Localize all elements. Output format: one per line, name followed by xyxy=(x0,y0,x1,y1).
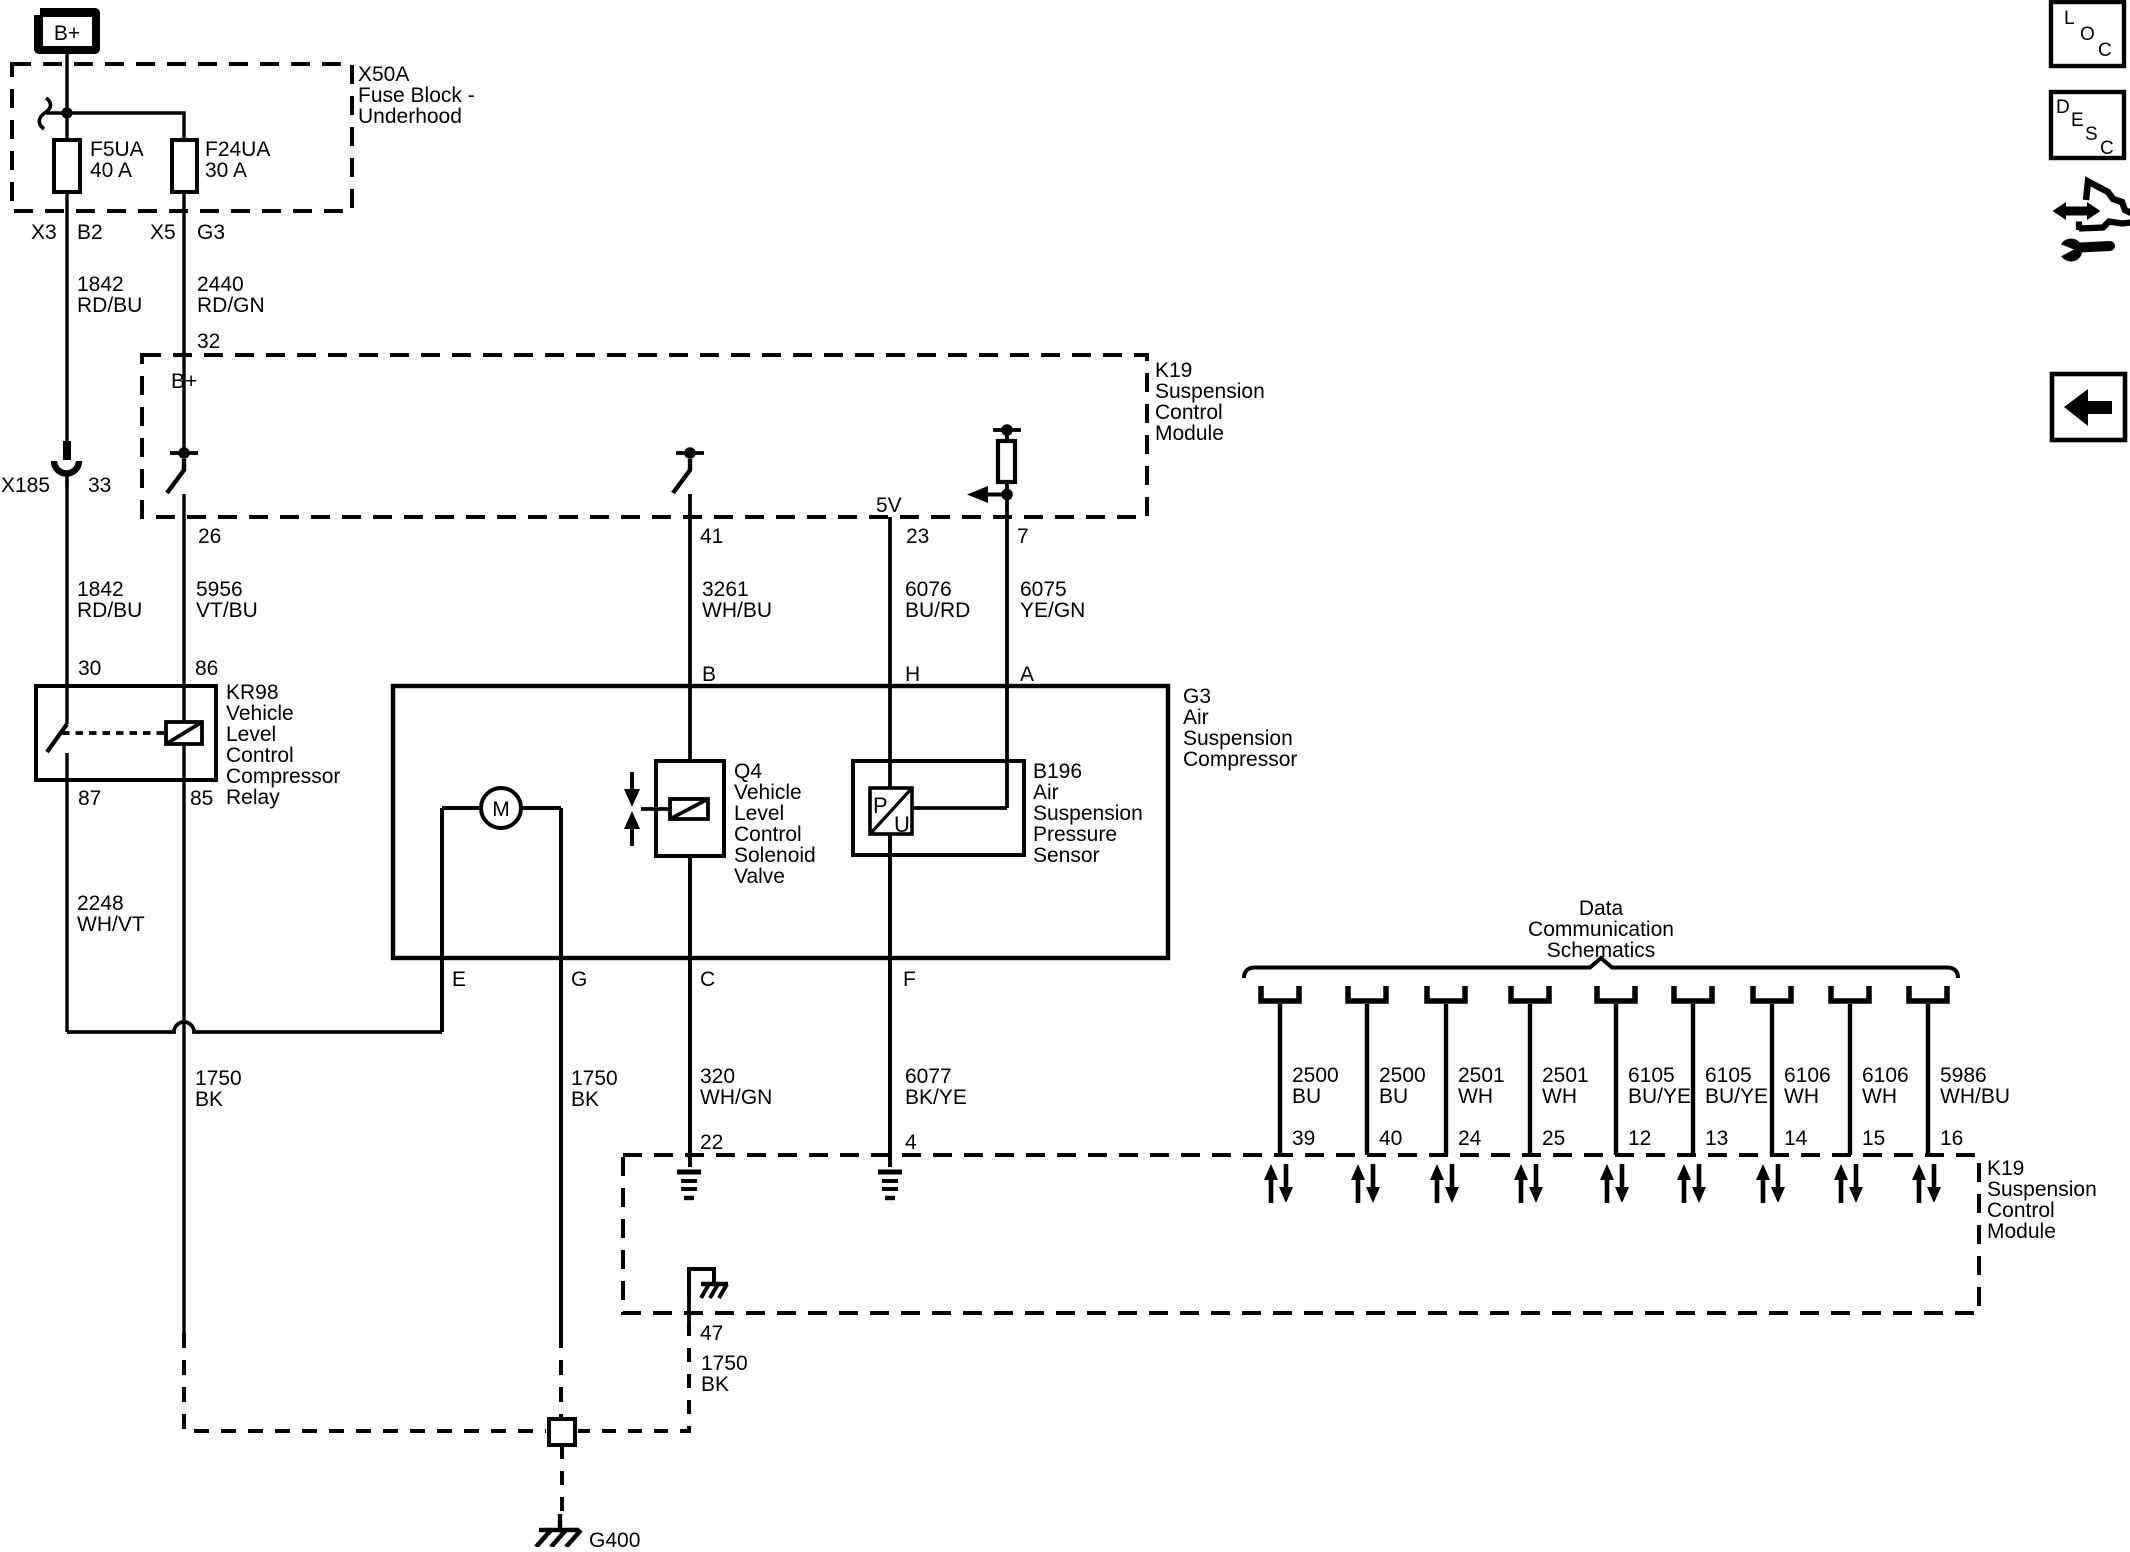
relay switch blade xyxy=(47,724,67,752)
svg-text:25: 25 xyxy=(1542,1127,1565,1150)
wire label 5956 VT/BU xyxy=(196,578,258,622)
svg-text:Suspension: Suspension xyxy=(1033,802,1143,825)
wire label 1750 BK (3) xyxy=(701,1352,748,1396)
svg-text:C: C xyxy=(2098,40,2112,61)
svg-text:4: 4 xyxy=(905,1131,917,1154)
svg-text:Air: Air xyxy=(1033,781,1059,804)
svg-text:F: F xyxy=(903,968,916,991)
data link connector (pin 24) xyxy=(1427,986,1465,1001)
data communication schematics label xyxy=(1528,897,1674,962)
svg-text:Suspension: Suspension xyxy=(1155,380,1265,403)
bidirectional data arrows (pin 25) xyxy=(1514,1164,1543,1203)
sensor output link to pin A wire xyxy=(912,806,1007,810)
wire motor to pin G ground lead xyxy=(559,808,563,1333)
wire sensor to pin F ground (pin 4) xyxy=(888,834,892,1167)
wire label 2248 WH/VT xyxy=(77,892,145,936)
svg-text:Valve: Valve xyxy=(734,865,785,888)
wire label 6105 BU/YE xyxy=(1705,1064,1768,1108)
case ground symbol at pin 47 xyxy=(689,1269,728,1298)
wire data link pin 16 xyxy=(1926,1004,1930,1155)
svg-text:2501: 2501 xyxy=(1542,1064,1589,1087)
K19 suspension control module label xyxy=(1155,359,1265,445)
svg-text:Control: Control xyxy=(734,823,802,846)
svg-text:G3: G3 xyxy=(1183,685,1211,708)
svg-text:86: 86 xyxy=(195,657,218,680)
svg-text:O: O xyxy=(2080,24,2095,45)
relay coil xyxy=(166,722,202,744)
svg-text:F5UA: F5UA xyxy=(90,138,144,161)
pull-up resistor inside K19 xyxy=(993,424,1021,482)
svg-text:40: 40 xyxy=(1379,1127,1402,1150)
svg-text:Q4: Q4 xyxy=(734,760,762,783)
svg-text:L: L xyxy=(2064,8,2075,29)
svg-text:33: 33 xyxy=(88,474,111,497)
fuse F24UA xyxy=(172,140,197,192)
svg-text:2248: 2248 xyxy=(77,892,124,915)
svg-text:40 A: 40 A xyxy=(90,159,132,182)
wire label 2500 BU xyxy=(1292,1064,1339,1108)
svg-text:Suspension: Suspension xyxy=(1987,1178,2097,1201)
data link connector (pin 14) xyxy=(1753,986,1791,1001)
svg-text:1842: 1842 xyxy=(77,578,124,601)
svg-text:Pressure: Pressure xyxy=(1033,823,1117,846)
svg-text:WH/BU: WH/BU xyxy=(1940,1085,2010,1108)
bidirectional data arrows (pin 39) xyxy=(1264,1164,1293,1203)
svg-text:C: C xyxy=(2100,138,2114,159)
svg-text:BK: BK xyxy=(701,1373,729,1396)
svg-text:G3: G3 xyxy=(197,221,225,244)
svg-text:14: 14 xyxy=(1784,1127,1808,1150)
svg-text:Module: Module xyxy=(1987,1220,2056,1243)
svg-text:Compressor: Compressor xyxy=(1183,748,1297,771)
bidirectional data arrows (pin 13) xyxy=(1677,1164,1706,1203)
svg-text:85: 85 xyxy=(190,787,213,810)
svg-text:Suspension: Suspension xyxy=(1183,727,1293,750)
svg-text:BU/YE: BU/YE xyxy=(1705,1085,1768,1108)
svg-text:B+: B+ xyxy=(54,22,80,45)
svg-text:16: 16 xyxy=(1940,1127,1963,1150)
svg-text:VT/BU: VT/BU xyxy=(196,599,258,622)
svg-text:Relay: Relay xyxy=(226,786,280,809)
svg-text:5956: 5956 xyxy=(196,578,243,601)
wire data link pin 15 xyxy=(1848,1004,1852,1155)
fuse F5UA 40 A value label xyxy=(90,138,144,182)
wire X185 to relay pin 30 xyxy=(65,480,68,686)
inline connector X185 xyxy=(54,441,79,487)
svg-text:Control: Control xyxy=(226,744,294,767)
relay coil wire xyxy=(182,686,185,780)
pressure sensor B196 box xyxy=(853,761,1024,855)
svg-text:B: B xyxy=(702,663,716,686)
wire splice to fuse F5UA xyxy=(65,113,68,140)
svg-text:YE/GN: YE/GN xyxy=(1020,599,1085,622)
svg-text:D: D xyxy=(2056,97,2070,118)
svg-text:U: U xyxy=(894,812,910,837)
X50A fuse block label xyxy=(358,63,475,128)
wire fuse F5UA to connector X185 xyxy=(65,192,68,441)
relay KR98 label xyxy=(226,681,340,809)
relay output wire to pin 87 xyxy=(65,753,68,780)
svg-text:B196: B196 xyxy=(1033,760,1082,783)
wire label 1750 BK (2) xyxy=(571,1067,618,1111)
relay actuation dashed link xyxy=(62,731,166,735)
svg-text:1750: 1750 xyxy=(701,1352,748,1375)
driver switch contact for pin 41 xyxy=(673,447,704,493)
svg-text:23: 23 xyxy=(906,525,929,548)
svg-text:6075: 6075 xyxy=(1020,578,1067,601)
data communication brace xyxy=(1244,958,1958,978)
svg-text:WH: WH xyxy=(1784,1085,1819,1108)
vehicle diagnostic icon with arrow and wrench xyxy=(2050,182,2130,262)
svg-text:Control: Control xyxy=(1987,1199,2055,1222)
bidirectional data arrows (pin 24) xyxy=(1430,1164,1459,1203)
wire label 6106 WH xyxy=(1784,1064,1831,1108)
wire B+ terminal down into fuse block xyxy=(65,54,68,113)
svg-text:B2: B2 xyxy=(77,221,103,244)
svg-text:320: 320 xyxy=(700,1065,735,1088)
svg-text:26: 26 xyxy=(198,525,221,548)
svg-text:X185: X185 xyxy=(1,474,50,497)
svg-text:13: 13 xyxy=(1705,1127,1728,1150)
svg-text:BK: BK xyxy=(571,1088,599,1111)
wire data link pin 25 xyxy=(1528,1004,1532,1155)
svg-text:X5: X5 xyxy=(150,221,176,244)
LOC navigation icon xyxy=(2051,2,2124,66)
svg-text:Vehicle: Vehicle xyxy=(734,781,802,804)
wire label 1842 RD/BU (2) xyxy=(77,578,142,622)
svg-text:5V: 5V xyxy=(876,494,902,517)
data link connector (pin 16) xyxy=(1909,986,1947,1001)
svg-text:Compressor: Compressor xyxy=(226,765,340,788)
bidirectional data arrows (pin 40) xyxy=(1351,1164,1380,1203)
svg-text:6076: 6076 xyxy=(905,578,952,601)
dashed wire pin 47 to splice xyxy=(578,1322,689,1431)
wire relay pin 87 down xyxy=(65,780,68,1032)
svg-text:BU/YE: BU/YE xyxy=(1628,1085,1691,1108)
wire Q4 to pin C ground (pin 22) xyxy=(688,856,692,1167)
svg-text:BK: BK xyxy=(195,1088,223,1111)
svg-text:24: 24 xyxy=(1458,1127,1482,1150)
svg-text:1842: 1842 xyxy=(77,273,124,296)
svg-text:39: 39 xyxy=(1292,1127,1315,1150)
svg-text:1750: 1750 xyxy=(195,1067,242,1090)
K19 suspension control module dashed outline (bottom) xyxy=(623,1155,1979,1313)
wire data link pin 14 xyxy=(1770,1004,1774,1155)
wire fuse F24UA to K19 pin 32 xyxy=(182,192,185,355)
svg-text:BU/RD: BU/RD xyxy=(905,599,970,622)
data link connector (pin 39) xyxy=(1261,986,1299,1001)
Q4 vehicle level control solenoid valve label xyxy=(734,760,816,888)
svg-text:K19: K19 xyxy=(1155,359,1192,382)
wire pin 87 to compressor pin E with crossover hop xyxy=(67,1022,442,1032)
svg-text:Control: Control xyxy=(1155,401,1223,424)
wire motor lead left xyxy=(442,806,481,810)
dashed wire splice to ground G400 xyxy=(560,1445,564,1514)
svg-text:41: 41 xyxy=(700,525,723,548)
air suspension compressor G3 box xyxy=(393,686,1168,958)
wire label 1750 BK xyxy=(195,1067,242,1111)
wire label 1842 RD/BU xyxy=(77,273,142,317)
wire resistor pin 7 to pressure sensor output xyxy=(1005,482,1009,808)
bidirectional data arrows (pin 12) xyxy=(1600,1164,1629,1203)
svg-text:15: 15 xyxy=(1862,1127,1885,1150)
driver switch contact for pin 26 xyxy=(167,447,198,493)
svg-text:KR98: KR98 xyxy=(226,681,279,704)
bidirectional data arrows (pin 16) xyxy=(1912,1164,1941,1203)
fusible link clip symbol xyxy=(39,98,50,129)
svg-text:6105: 6105 xyxy=(1705,1064,1752,1087)
back arrow navigation icon xyxy=(2052,374,2125,440)
svg-text:6106: 6106 xyxy=(1784,1064,1831,1087)
svg-text:WH: WH xyxy=(1862,1085,1897,1108)
ground symbol at pin 4 xyxy=(878,1172,902,1198)
DESC navigation icon xyxy=(2051,92,2124,159)
wire switch to relay pin 86 via pin 26 xyxy=(182,494,185,686)
wire relay pin 85 ground lead xyxy=(182,780,185,1333)
svg-text:P: P xyxy=(873,793,888,818)
wire label 2501 WH xyxy=(1458,1064,1505,1108)
wire data link pin 40 xyxy=(1365,1004,1369,1155)
bidirectional data arrows (pin 15) xyxy=(1834,1164,1863,1203)
bidirectional data arrows (pin 14) xyxy=(1756,1164,1785,1203)
wire label 6075 YE/GN xyxy=(1020,578,1085,622)
svg-text:32: 32 xyxy=(197,330,220,353)
data link connector (pin 13) xyxy=(1674,986,1712,1001)
svg-text:6077: 6077 xyxy=(905,1065,952,1088)
relay contact feed wire xyxy=(65,686,68,724)
P/U transducer symbol xyxy=(870,788,912,837)
svg-text:30: 30 xyxy=(78,657,101,680)
svg-text:5986: 5986 xyxy=(1940,1064,1987,1087)
svg-text:Air: Air xyxy=(1183,706,1209,729)
ground splice junction box xyxy=(549,1419,575,1445)
svg-text:S: S xyxy=(2085,124,2098,145)
wire label 320 WH/GN xyxy=(700,1065,772,1109)
wire label 2501 WH xyxy=(1542,1064,1589,1108)
Q4 valve symbol xyxy=(624,772,670,846)
svg-text:RD/BU: RD/BU xyxy=(77,599,142,622)
svg-text:RD/BU: RD/BU xyxy=(77,294,142,317)
svg-text:2500: 2500 xyxy=(1292,1064,1339,1087)
svg-text:Solenoid: Solenoid xyxy=(734,844,816,867)
svg-text:WH/VT: WH/VT xyxy=(77,913,145,936)
svg-text:BU: BU xyxy=(1379,1085,1408,1108)
ground symbol at pin 22 xyxy=(677,1172,701,1198)
svg-text:E: E xyxy=(2071,110,2084,131)
svg-text:1750: 1750 xyxy=(571,1067,618,1090)
svg-text:3261: 3261 xyxy=(702,578,749,601)
battery positive voltage terminal B+ xyxy=(34,8,100,54)
wire motor lead right xyxy=(521,806,561,810)
svg-text:RD/GN: RD/GN xyxy=(197,294,265,317)
wire switch pin 41 to solenoid Q4 xyxy=(688,494,692,761)
wire data link pin 13 xyxy=(1691,1004,1695,1155)
svg-text:2501: 2501 xyxy=(1458,1064,1505,1087)
svg-text:M: M xyxy=(492,798,510,821)
wire data link pin 24 xyxy=(1444,1004,1448,1155)
wire data link pin 39 xyxy=(1278,1004,1282,1155)
B196 air suspension pressure sensor label xyxy=(1033,760,1143,867)
data link connector (pin 25) xyxy=(1511,986,1549,1001)
data link connector (pin 15) xyxy=(1831,986,1869,1001)
svg-text:7: 7 xyxy=(1017,525,1029,548)
svg-text:30 A: 30 A xyxy=(205,159,247,182)
svg-text:G400: G400 xyxy=(589,1529,640,1547)
svg-text:Level: Level xyxy=(226,723,276,746)
signal sense arrow at pin 7 node xyxy=(967,486,1013,503)
svg-text:Fuse Block -: Fuse Block - xyxy=(358,84,475,107)
svg-text:Level: Level xyxy=(734,802,784,825)
svg-text:12: 12 xyxy=(1628,1127,1651,1150)
svg-text:H: H xyxy=(905,663,920,686)
svg-text:6106: 6106 xyxy=(1862,1064,1909,1087)
fuse F24UA 30 A value label xyxy=(205,138,270,182)
wire splice to fuse F24UA xyxy=(46,113,184,140)
svg-text:BK/YE: BK/YE xyxy=(905,1086,967,1109)
svg-text:Underhood: Underhood xyxy=(358,105,462,128)
relay KR98 box xyxy=(36,686,216,780)
svg-text:WH: WH xyxy=(1458,1085,1493,1108)
svg-text:K19: K19 xyxy=(1987,1157,2024,1180)
wire label 3261 WH/BU xyxy=(702,578,772,622)
svg-text:6105: 6105 xyxy=(1628,1064,1675,1087)
splice junction dot xyxy=(61,107,72,118)
svg-text:F24UA: F24UA xyxy=(205,138,270,161)
dashed wire pin G to splice xyxy=(559,1333,563,1419)
data link connector (pin 12) xyxy=(1597,986,1635,1001)
svg-text:Sensor: Sensor xyxy=(1033,844,1100,867)
wire data link pin 12 xyxy=(1614,1004,1618,1155)
solenoid valve Q4 box xyxy=(656,761,724,856)
svg-text:Data: Data xyxy=(1579,897,1624,920)
svg-text:A: A xyxy=(1020,663,1034,686)
wire 5V pin 23 to pressure sensor xyxy=(888,517,892,788)
svg-text:C: C xyxy=(700,968,715,991)
compressor motor M xyxy=(481,788,521,828)
wire B+ into switch (pin 26 circuit) xyxy=(182,355,185,448)
fuse F5UA xyxy=(54,140,80,192)
svg-text:WH/GN: WH/GN xyxy=(700,1086,772,1109)
data link connector (pin 40) xyxy=(1348,986,1386,1001)
wire label 2440 RD/GN xyxy=(197,273,265,317)
wire label 6077 BK/YE xyxy=(905,1065,967,1109)
svg-text:G: G xyxy=(571,968,587,991)
wire pin 47 to splice xyxy=(687,1293,691,1322)
wire label 6076 BU/RD xyxy=(905,578,970,622)
svg-text:22: 22 xyxy=(700,1131,723,1154)
K19 suspension control module label (bottom) xyxy=(1987,1157,2097,1243)
svg-text:Module: Module xyxy=(1155,422,1224,445)
svg-text:47: 47 xyxy=(700,1322,723,1345)
svg-text:BU: BU xyxy=(1292,1085,1321,1108)
svg-text:X3: X3 xyxy=(31,221,57,244)
svg-text:X50A: X50A xyxy=(358,63,409,86)
wire label 5986 WH/BU xyxy=(1940,1064,2010,1108)
wire motor to pin E xyxy=(440,808,444,1032)
wire label 6105 BU/YE xyxy=(1628,1064,1691,1108)
Q4 solenoid coil xyxy=(670,799,708,819)
fuse block X50A dashed outline xyxy=(12,64,352,211)
dashed wire pin 85 lead to splice xyxy=(184,1333,546,1431)
svg-text:WH/BU: WH/BU xyxy=(702,599,772,622)
svg-text:2500: 2500 xyxy=(1379,1064,1426,1087)
G3 air suspension compressor label xyxy=(1183,685,1297,771)
svg-text:E: E xyxy=(452,968,466,991)
wire label 6106 WH xyxy=(1862,1064,1909,1108)
wire label 2500 BU xyxy=(1379,1064,1426,1108)
K19 suspension control module dashed outline (top) xyxy=(142,355,1147,517)
svg-text:Communication: Communication xyxy=(1528,918,1674,941)
svg-text:WH: WH xyxy=(1542,1085,1577,1108)
ground G400 symbol xyxy=(536,1514,581,1547)
svg-text:2440: 2440 xyxy=(197,273,244,296)
svg-text:87: 87 xyxy=(78,787,101,810)
svg-text:Vehicle: Vehicle xyxy=(226,702,294,725)
